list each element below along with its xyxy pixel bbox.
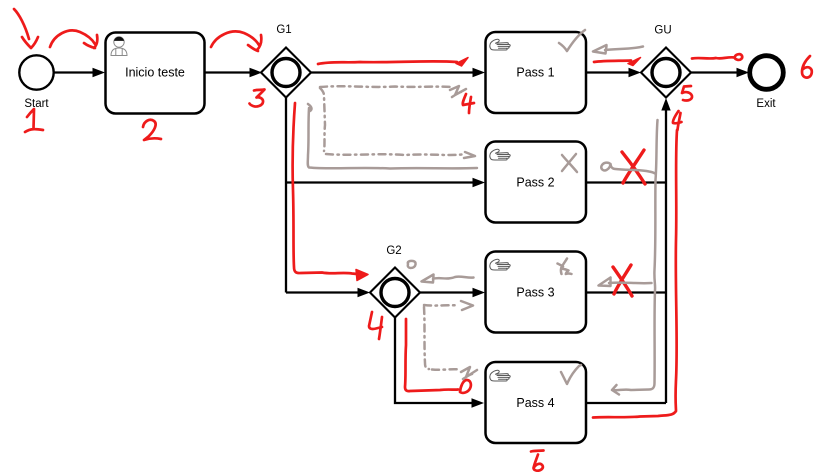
svg-text:Pass 4: Pass 4 — [516, 396, 554, 410]
task Pass 1 — [486, 32, 587, 113]
gray zigzag arrowhead near digit 4 — [450, 86, 466, 97]
gateway G2 — [370, 245, 420, 318]
red digit 5 at GU — [682, 86, 692, 101]
task Pass 3 — [486, 252, 587, 333]
red digit 2 — [143, 120, 161, 140]
svg-text:G2: G2 — [386, 245, 401, 257]
wire G2 down to Pass 4 — [395, 318, 484, 408]
svg-text:Inicio teste: Inicio teste — [125, 66, 185, 80]
gray dash-dot loop top — [320, 85, 452, 88]
gray arrowhead to Pass 2 dashed — [464, 152, 475, 158]
gray left arrow Pass1-GU — [593, 45, 643, 54]
gray dash-dot down to Pass 4 — [424, 307, 429, 369]
wire Pass 4 out — [586, 402, 666, 404]
task Pass 2 — [486, 142, 587, 223]
red arc task to G1 — [211, 31, 261, 51]
svg-text:GU: GU — [654, 25, 671, 37]
gray left arrow at Pass 3 output — [599, 278, 652, 287]
red digit 4 at G2 — [369, 312, 382, 339]
gray long vertical right side — [612, 120, 658, 395]
red digit 4 near Pass 1 — [463, 94, 474, 113]
manual task icon Pass 2 — [490, 149, 510, 160]
gray solid line to Pass 2 — [308, 104, 477, 169]
manual task icon Pass 4 — [490, 370, 510, 381]
wire G1 to Pass 1 — [311, 68, 485, 78]
wire Start to Inicio teste — [54, 68, 105, 78]
gray a-loop at red X — [601, 163, 655, 174]
gateway G1 — [261, 24, 311, 98]
red arrow GU to Exit — [692, 54, 742, 60]
wire Inicio teste to G1 — [205, 68, 263, 78]
red arrowhead G1-Pass1 line — [456, 58, 468, 67]
wire to G2 — [286, 288, 370, 298]
wire G2 to Pass 3 — [420, 288, 485, 298]
start event Start — [19, 55, 53, 110]
red arrowhead Pass1-GU — [628, 58, 641, 66]
svg-text:Pass 1: Pass 1 — [516, 66, 554, 80]
svg-text:G1: G1 — [276, 24, 291, 36]
red digit 3 — [250, 90, 265, 107]
gray small square above G2 — [408, 261, 416, 268]
gateway GU — [641, 25, 691, 98]
red digit 4 below GU — [673, 111, 682, 130]
user task icon — [111, 37, 127, 56]
red digit 1 — [25, 109, 43, 132]
wire Pass 3 out — [586, 291, 666, 293]
wire Pass 2 out — [586, 181, 666, 183]
svg-text:Pass 3: Pass 3 — [516, 286, 554, 300]
manual task icon Pass 1 — [490, 39, 510, 50]
wire to Pass 2 — [286, 178, 485, 188]
exit event — [750, 56, 784, 110]
wire G1 down — [285, 98, 287, 293]
wire collector up to GU — [661, 98, 670, 403]
svg-text:Pass 2: Pass 2 — [516, 176, 554, 190]
manual task icon Pass 3 — [490, 259, 510, 270]
red long line down right side — [593, 130, 677, 418]
red line G2 down to Pass 4 — [405, 319, 471, 393]
red line G1 to Pass 1 — [318, 61, 457, 64]
gray annotations — [308, 30, 658, 395]
red X at Pass 2 output — [622, 150, 645, 184]
red digit 6 at Exit — [802, 56, 812, 78]
wire GU to Exit — [691, 68, 749, 78]
gray X in Pass 2 — [562, 154, 577, 172]
task Pass 4 — [486, 362, 587, 443]
gray check in Pass 4 — [561, 365, 581, 384]
gray check Pass 1 — [559, 30, 585, 51]
gray left arrow G2 to Pass 3 — [422, 275, 474, 283]
gray x mark in Pass 3 — [558, 259, 572, 275]
gray zigzag arrowhead to Pass 4 — [461, 367, 477, 379]
gray dash-dot arrow G2 to Pass 3 below — [424, 304, 458, 307]
red arrow Pass 1 to GU — [594, 61, 631, 63]
svg-text:Start: Start — [24, 98, 49, 110]
task Inicio teste — [106, 33, 205, 114]
svg-text:Exit: Exit — [756, 98, 776, 110]
red arrow into Start — [14, 9, 38, 48]
red X at Pass 3 output — [613, 265, 632, 296]
red arrowhead to G2 — [356, 270, 368, 281]
red digit 5 below Pass 4 — [531, 451, 544, 471]
red arc Start to task — [50, 30, 97, 48]
red line G1 down to G2 — [293, 103, 357, 274]
wire Pass 1 to GU — [586, 68, 641, 78]
